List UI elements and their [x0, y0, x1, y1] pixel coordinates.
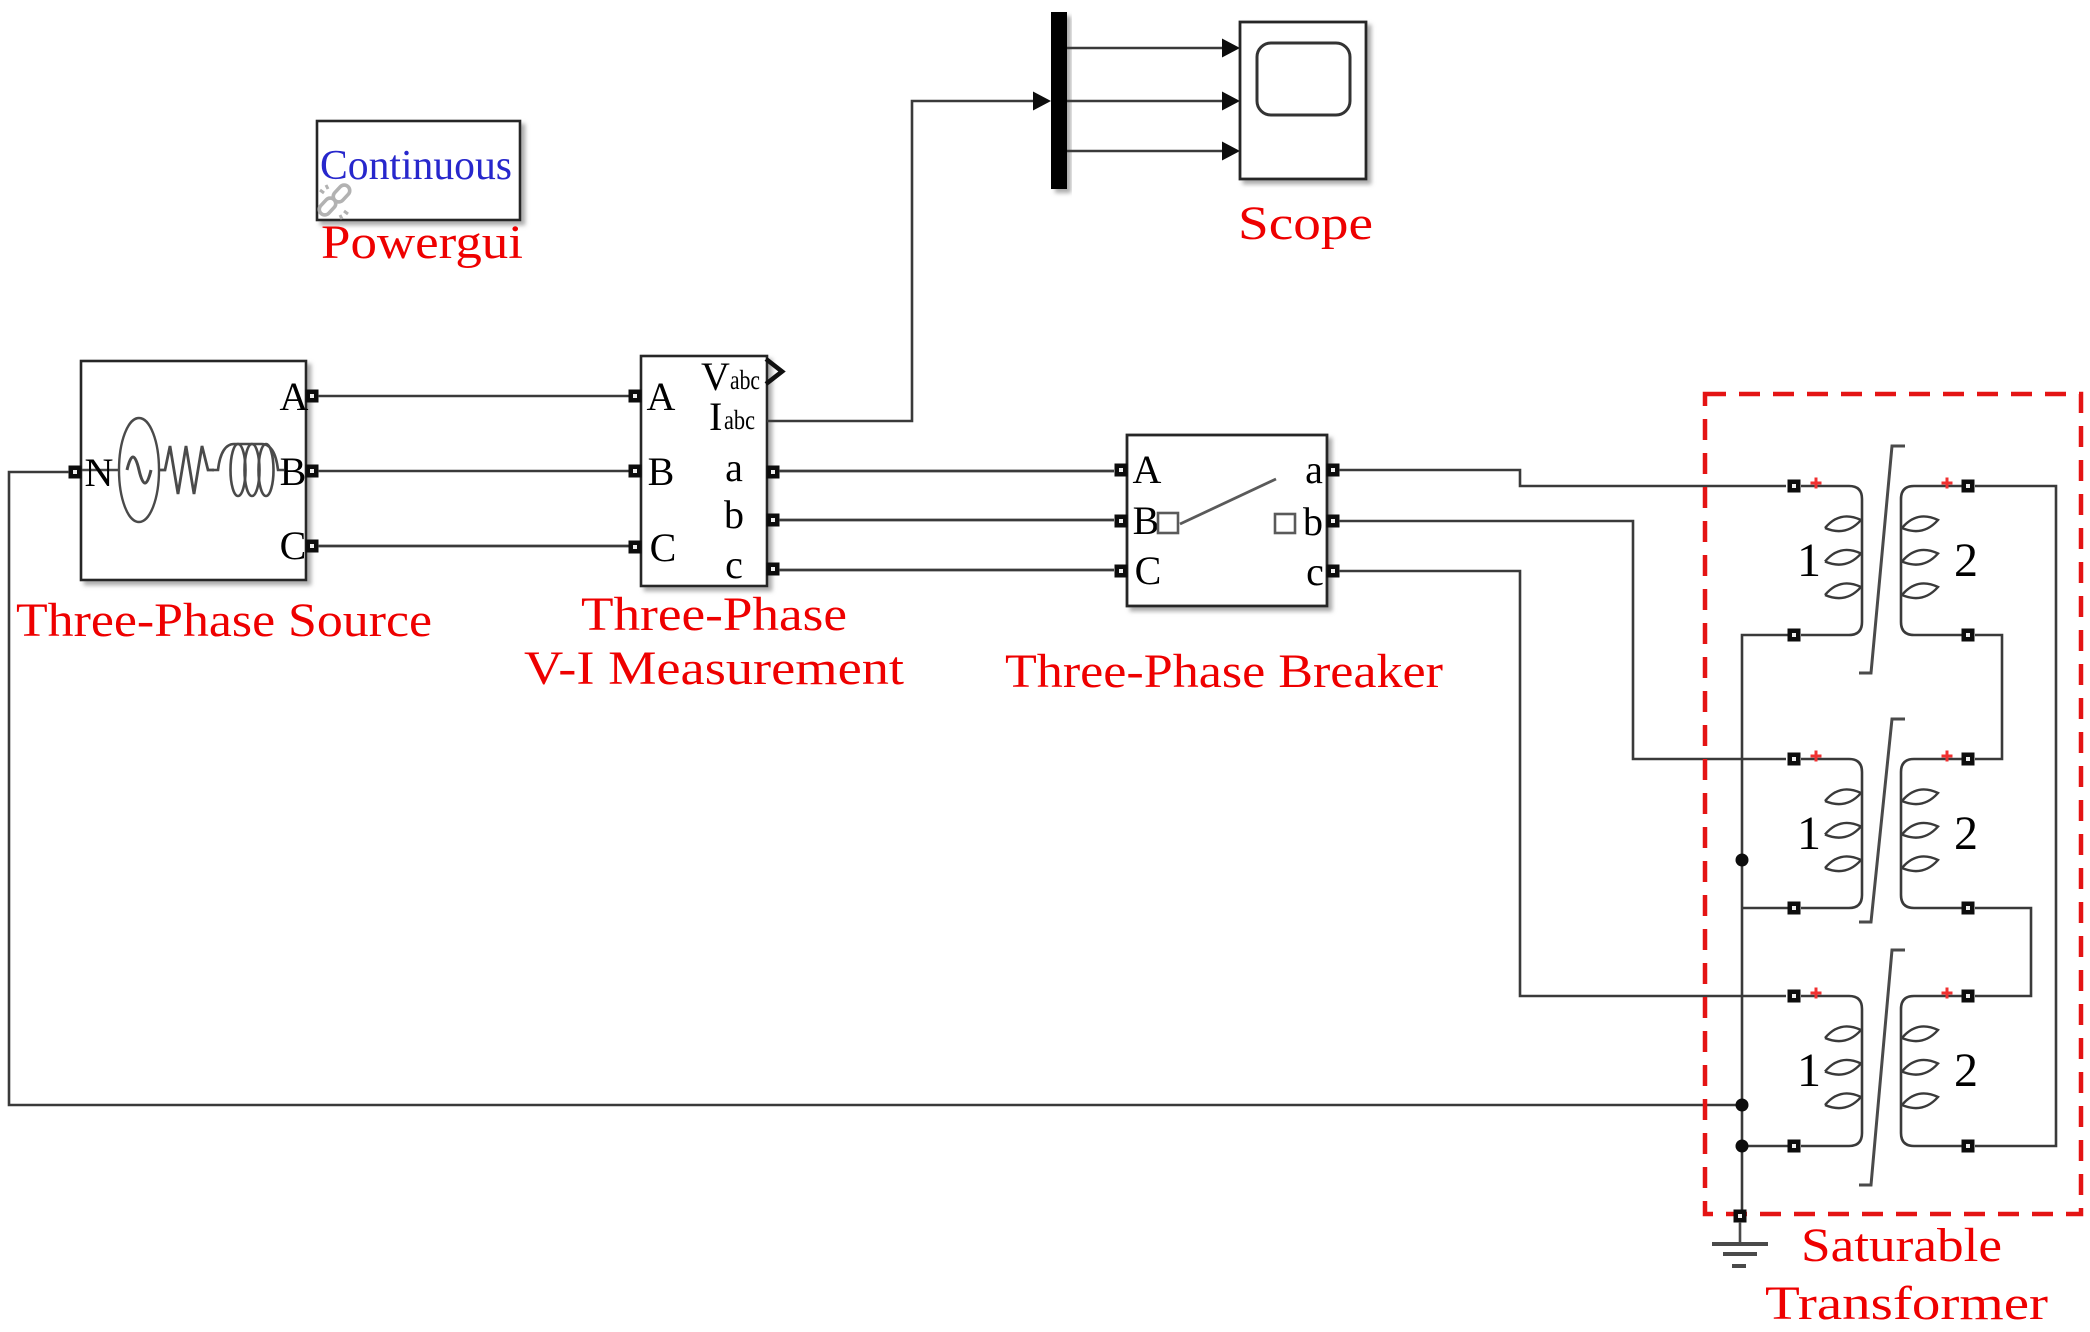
svg-text:V-I Measurement: V-I Measurement [524, 642, 905, 695]
junction dot upper [1736, 854, 1749, 867]
transformer T1 core [1859, 446, 1905, 673]
label Three-Phase (measurement line 1) [581, 588, 847, 641]
transformer T1 primary polarity plus [1811, 478, 1822, 489]
transformer T2 secondary bottom port [1962, 902, 1975, 915]
transformer T1 secondary winding [1901, 486, 1962, 635]
wire transformer1 secondary bottom to transformer2 secondary top [1975, 635, 2002, 759]
transformer T3 secondary polarity plus [1942, 988, 1953, 999]
source label B [280, 449, 307, 494]
breaker switch left contact [1158, 513, 1178, 533]
wire measurement a to breaker A [779, 470, 1114, 473]
svg-text:A: A [647, 374, 676, 419]
wire transformer1 secondary top to transformer3 secondary bottom (outer) [1975, 486, 2056, 1146]
svg-text:2: 2 [1954, 534, 1978, 587]
svg-text:Transformer: Transformer [1765, 1277, 2048, 1330]
svg-text:C: C [280, 523, 307, 568]
powergui broken-link icon [317, 183, 352, 219]
source resistor [159, 446, 214, 494]
svg-text:B: B [648, 449, 675, 494]
transformer T3 primary top port [1788, 990, 1801, 1003]
transformer T2 label 1 [1797, 807, 1821, 860]
source label N [85, 450, 114, 495]
junction dot N wire [1736, 1099, 1749, 1112]
svg-text:B: B [280, 449, 307, 494]
saturable transformer dashed boundary [1705, 394, 2081, 1214]
svg-text:abc: abc [724, 405, 755, 435]
measurement label b [724, 492, 744, 537]
wire source N return to transformer neutral [9, 472, 1736, 1105]
arrow into mux [1033, 92, 1051, 111]
source label A [280, 374, 309, 419]
source label C [280, 523, 307, 568]
transformer T2 primary bottom port [1788, 902, 1801, 915]
label Three-Phase Breaker [1005, 645, 1443, 698]
label Three-Phase Source [16, 594, 432, 647]
svg-text:c: c [725, 542, 743, 587]
breaker port A [1115, 464, 1128, 477]
svg-text:1: 1 [1797, 534, 1821, 587]
breaker label A [1133, 447, 1162, 492]
measurement port b [767, 514, 780, 527]
svg-text:A: A [1133, 447, 1162, 492]
svg-text:b: b [1303, 499, 1323, 544]
breaker label b [1303, 499, 1323, 544]
transformer T1 primary top port [1788, 480, 1801, 493]
transformer T1 secondary bottom port [1962, 629, 1975, 642]
transformer T3 secondary top port [1962, 990, 1975, 1003]
label Saturable [1801, 1219, 2002, 1272]
svg-text:C: C [650, 525, 677, 570]
svg-text:Three-Phase Source: Three-Phase Source [16, 594, 432, 647]
ground symbol [1712, 1222, 1768, 1266]
junction dot lower [1736, 1140, 1749, 1153]
transformer T3 label 1 [1797, 1044, 1821, 1097]
breaker label a [1305, 447, 1323, 492]
transformer T1 secondary polarity plus [1942, 478, 1953, 489]
label V-I Measurement (measurement line 2) [524, 642, 905, 695]
label Powergui [321, 216, 523, 269]
breaker port B [1115, 515, 1128, 528]
svg-text:Continuous: Continuous [320, 143, 512, 189]
measurement label A [647, 374, 676, 419]
measurement label a [725, 445, 743, 490]
transformer T2 secondary top port [1962, 753, 1975, 766]
breaker port a [1327, 464, 1340, 477]
wire mux out 3 to scope [1067, 142, 1240, 161]
svg-text:abc: abc [730, 365, 760, 395]
breaker label C [1135, 548, 1162, 593]
source port A [306, 390, 319, 403]
svg-text:Three-Phase: Three-Phase [581, 588, 847, 641]
svg-text:1: 1 [1797, 1044, 1821, 1097]
transformer T2 primary polarity plus [1811, 751, 1822, 762]
source inductor [212, 444, 284, 496]
transformer T2 primary winding [1801, 759, 1862, 908]
svg-text:B: B [1133, 498, 1160, 543]
transformer T3 primary winding [1801, 996, 1862, 1146]
measurement port B [629, 465, 642, 478]
label Scope [1238, 197, 1373, 250]
source AC symbol [82, 418, 159, 522]
source port C [306, 540, 319, 553]
wire source C to measurement C [318, 545, 629, 548]
svg-text:c: c [1306, 549, 1324, 594]
transformer T2 primary top port [1788, 753, 1801, 766]
breaker switch right contact [1275, 514, 1295, 533]
svg-text:2: 2 [1954, 807, 1978, 860]
scope block [1240, 22, 1366, 179]
breaker port b [1327, 515, 1340, 528]
wire breaker b to transformer 2 primary [1339, 521, 1786, 759]
wire Iabc to mux [767, 101, 1033, 421]
breaker switch blade [1180, 479, 1276, 524]
measurement port A [629, 390, 642, 403]
three-phase source block [81, 361, 306, 580]
wire measurement c to breaker C [779, 569, 1114, 572]
wire breaker c to transformer 3 primary [1339, 571, 1786, 996]
transformer T1 label 1 [1797, 534, 1821, 587]
svg-text:Scope: Scope [1238, 197, 1373, 250]
svg-text:C: C [1135, 548, 1162, 593]
source port B [306, 465, 319, 478]
breaker label c [1306, 549, 1324, 594]
measurement port C [629, 541, 642, 554]
measurement label Iabc [709, 394, 755, 439]
wire neutral trunk [1742, 635, 1788, 1216]
transformer T3 secondary winding [1901, 996, 1962, 1146]
transformer T3 label 2 [1954, 1044, 1978, 1097]
measurement label Vabc [701, 354, 760, 399]
measurement port c [767, 563, 780, 576]
source port N [69, 466, 82, 479]
wire mux out 1 to scope [1067, 39, 1240, 58]
svg-text:a: a [725, 445, 743, 490]
wire source B to measurement B [318, 470, 629, 473]
transformer T3 secondary bottom port [1962, 1140, 1975, 1153]
three-phase breaker block [1127, 435, 1327, 606]
svg-text:b: b [724, 492, 744, 537]
transformer T2 secondary polarity plus [1942, 751, 1953, 762]
measurement label B [648, 449, 675, 494]
wire breaker a to transformer 1 primary [1339, 470, 1786, 486]
scope screen [1257, 43, 1350, 115]
wire source A to measurement A [318, 395, 629, 398]
svg-text:Saturable: Saturable [1801, 1219, 2002, 1272]
svg-text:2: 2 [1954, 1044, 1978, 1097]
transformer T1 label 2 [1954, 534, 1978, 587]
wire measurement b to breaker B [779, 519, 1114, 522]
measurement label c [725, 542, 743, 587]
svg-text:a: a [1305, 447, 1323, 492]
transformer T3 core [1859, 950, 1905, 1185]
wire mux out 2 to scope [1067, 92, 1240, 111]
label Transformer [1765, 1277, 2048, 1330]
measurement port a [767, 466, 780, 479]
transformer T1 secondary top port [1962, 480, 1975, 493]
svg-text:Three-Phase Breaker: Three-Phase Breaker [1005, 645, 1443, 698]
transformer T3 primary polarity plus [1811, 988, 1822, 999]
transformer T1 primary winding [1801, 486, 1862, 635]
three-phase V-I measurement block [641, 356, 767, 586]
svg-text:I: I [709, 394, 722, 439]
breaker label B [1133, 498, 1160, 543]
transformer T2 label 2 [1954, 807, 1978, 860]
svg-text:N: N [85, 450, 114, 495]
transformer T2 secondary winding [1901, 759, 1962, 908]
mux bar [1051, 12, 1067, 189]
breaker port c [1327, 565, 1340, 578]
powergui block [317, 121, 520, 220]
breaker port C [1115, 565, 1128, 578]
measurement Vabc output chevron [766, 359, 782, 384]
transformer T2 core [1859, 719, 1905, 922]
powergui Continuous label [320, 143, 512, 189]
ground port [1734, 1210, 1747, 1223]
transformer T3 primary bottom port [1788, 1140, 1801, 1153]
svg-text:Powergui: Powergui [321, 216, 523, 269]
svg-text:V: V [701, 354, 730, 399]
measurement label C [650, 525, 677, 570]
transformer T1 primary bottom port [1788, 629, 1801, 642]
svg-text:1: 1 [1797, 807, 1821, 860]
wire transformer2 secondary bottom to transformer3 secondary top [1975, 908, 2031, 996]
svg-text:A: A [280, 374, 309, 419]
